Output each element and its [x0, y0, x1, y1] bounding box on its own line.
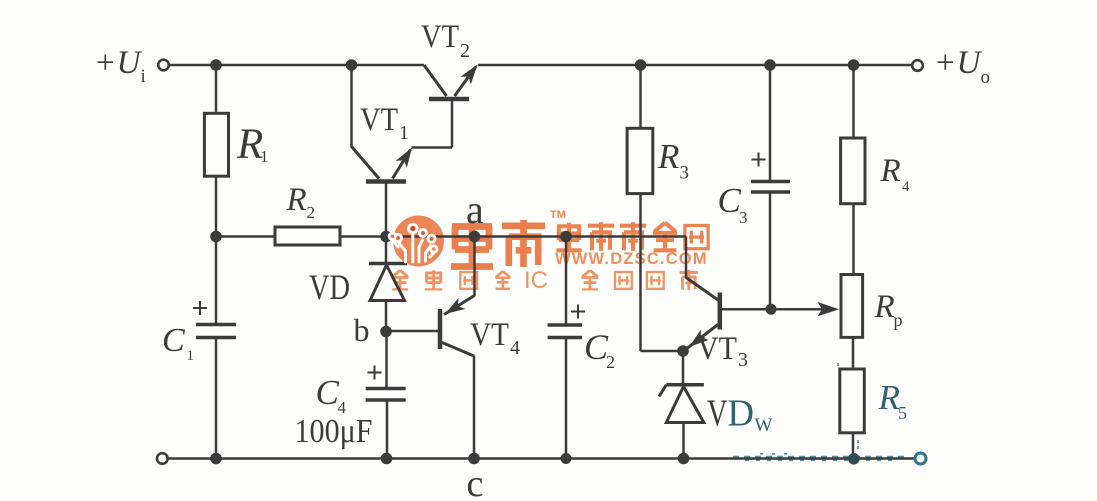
- wire VDw bottom lead: [682, 423, 685, 459]
- svg-text:3: 3: [738, 349, 748, 371]
- transistor VT2: [424, 65, 476, 99]
- wire R1 top lead: [215, 65, 218, 114]
- svg-text:3: 3: [680, 163, 690, 184]
- wire top rail right segment (VT2 emitter to +Uo): [478, 64, 912, 67]
- capacitor C2: [548, 325, 582, 338]
- svg-text:W: W: [755, 415, 773, 436]
- svg-text:2: 2: [460, 40, 470, 62]
- watermark logo white circuit tree: [394, 233, 434, 262]
- resistor R5: [840, 369, 865, 433]
- wire C3 top lead: [769, 65, 772, 181]
- node c junction (VT4 collector): [468, 453, 480, 465]
- wire R2 right to node a line extending to VT3 collector: [340, 235, 686, 238]
- node b junction: [380, 326, 392, 338]
- svg-text:IC: IC: [524, 267, 548, 294]
- junction top rail at R1: [210, 59, 222, 71]
- svg-text:4: 4: [902, 179, 910, 195]
- svg-text:5: 5: [898, 403, 907, 423]
- junction top rail at C3: [764, 59, 776, 71]
- wire node line b-row y=236.5 from C1 node to R2: [216, 235, 275, 238]
- wire R4 to Rp: [852, 204, 855, 276]
- capacitor C1 plus sign: [193, 301, 207, 315]
- wire R3 to VDw junction horizontal: [641, 350, 684, 353]
- svg-text:VT: VT: [360, 102, 398, 138]
- wire VT1 collector vertical: [350, 65, 353, 148]
- watermark slogan row 全球最大IC采购网站 (fake glyphs): [392, 270, 511, 289]
- svg-text:3: 3: [739, 208, 748, 227]
- svg-text:+Ui: +Ui: [96, 45, 146, 87]
- svg-text:R: R: [874, 289, 895, 325]
- svg-text:C: C: [718, 181, 742, 220]
- svg-text:+Uo: +Uo: [936, 45, 990, 88]
- transistor VT3: [686, 278, 720, 350]
- watermark text 电子市场网 (fake glyphs): [556, 222, 708, 251]
- wire C2 bottom lead: [565, 338, 568, 459]
- svg-text:4: 4: [510, 337, 520, 359]
- diode VD symbol: [369, 264, 407, 301]
- svg-text:R: R: [286, 182, 307, 218]
- junction bottom rail at VDw: [678, 453, 690, 465]
- svg-text:R: R: [878, 378, 900, 417]
- wire VT2 base lead vertical: [451, 101, 454, 148]
- wire R3 bottom lead long vertical: [639, 194, 642, 352]
- resistor R2: [275, 227, 340, 245]
- svg-text:2: 2: [606, 352, 615, 372]
- junction VT3 emitter / R3 / VDw: [677, 345, 689, 357]
- svg-text:TM: TM: [550, 209, 566, 221]
- junction node line at VT1 base / VD: [380, 231, 392, 243]
- transistor VT1: [352, 147, 411, 182]
- terminal +Uo circle: [912, 60, 923, 71]
- capacitor C2 plus sign: [571, 305, 585, 319]
- wire node b to C4: [385, 332, 388, 387]
- svg-text:R: R: [880, 153, 901, 189]
- svg-text:a: a: [466, 187, 484, 232]
- svg-text:C: C: [316, 373, 340, 412]
- wire VDw top lead: [682, 351, 685, 385]
- wire C3 bottom lead: [769, 193, 772, 310]
- wire node a to VT4 emitter: [473, 237, 476, 297]
- terminal bottom right circle (teal): [915, 453, 926, 464]
- watermark big text 维库 (fake glyphs): [451, 220, 545, 267]
- svg-text:VT: VT: [697, 331, 737, 367]
- capacitor C1: [196, 325, 236, 338]
- wire VD anode to node b: [385, 300, 388, 333]
- potentiometer Rp body: [841, 275, 863, 338]
- svg-text:1: 1: [187, 348, 195, 364]
- svg-text:2: 2: [307, 203, 316, 222]
- potentiometer Rp wiper arrow: [818, 302, 840, 316]
- svg-text:C: C: [162, 322, 185, 359]
- wire C4 bottom lead: [386, 400, 389, 459]
- junction bottom rail at C4: [381, 453, 393, 465]
- junction top rail at R4: [848, 59, 860, 71]
- wire VT1 base lead down: [385, 183, 388, 237]
- wire R1 bottom lead: [215, 176, 218, 237]
- svg-text:VT: VT: [421, 19, 459, 55]
- junction bottom rail at C1: [210, 453, 222, 465]
- wire VT3 base to C3 junction: [722, 308, 771, 311]
- resistor R1: [204, 113, 228, 176]
- terminal +Ui circle: [158, 60, 169, 71]
- svg-text:D: D: [728, 393, 755, 435]
- wire R3 top lead: [639, 65, 642, 129]
- node a junction: [469, 231, 481, 243]
- svg-text:1: 1: [260, 147, 269, 166]
- svg-text:b: b: [354, 312, 370, 348]
- wire bottom rail: [168, 457, 915, 460]
- capacitor C3 plus sign: [752, 153, 766, 167]
- junction VT3 base / C3: [766, 304, 777, 315]
- capacitor C4 plus sign: [368, 366, 382, 380]
- junction node line at R1/C1: [210, 231, 222, 243]
- svg-text:VT: VT: [470, 317, 509, 353]
- resistor R3: [627, 128, 653, 193]
- svg-text:1: 1: [399, 122, 409, 144]
- transistor VT4 (PNP): [440, 296, 475, 357]
- wire R4 top lead: [852, 65, 855, 138]
- wire top rail left segment (+Ui to VT2 collector): [169, 64, 424, 67]
- junction bottom rail at C2: [561, 453, 572, 464]
- junction top rail at VT1 collector: [346, 59, 358, 71]
- terminal bottom left circle: [157, 453, 168, 464]
- svg-text:V: V: [707, 393, 728, 435]
- svg-text:p: p: [894, 310, 903, 330]
- wire C1 top lead: [215, 237, 218, 324]
- wire VD cathode to node line: [385, 237, 388, 263]
- wire VT3 collector vertical to node line: [685, 237, 688, 279]
- wire C3 junction to Rp wiper arrow: [771, 308, 823, 311]
- wire Rp to R5: [852, 337, 855, 370]
- svg-text:100μF: 100μF: [295, 413, 373, 450]
- watermark logo disc: [393, 216, 444, 267]
- svg-text:c: c: [467, 463, 484, 501]
- wire VT4 collector vertical to node c: [473, 356, 476, 459]
- capacitor C3: [751, 182, 790, 193]
- junction top rail at R3: [635, 59, 647, 71]
- svg-text:VD: VD: [309, 267, 350, 307]
- wire node b to VT4 base: [386, 330, 438, 333]
- wire VT1 emitter to VT2 base horizontal: [412, 146, 453, 149]
- watermark teal dashes on bottom rail: [733, 363, 905, 460]
- capacitor C4: [366, 389, 406, 401]
- junction bottom rail at R5 (teal tinted): [848, 453, 860, 465]
- svg-text:R: R: [657, 137, 679, 176]
- wire C1 bottom lead: [215, 339, 218, 459]
- resistor R4: [841, 138, 865, 204]
- wire C2 top lead from node line: [565, 237, 568, 325]
- zener diode VDw symbol: [659, 385, 704, 423]
- junction node line at C2: [560, 231, 572, 243]
- wire R5 bottom lead: [852, 433, 855, 459]
